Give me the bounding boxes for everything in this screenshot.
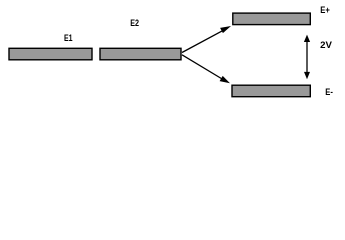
energy level bar E+ [233,13,310,25]
energy level bar E2 [100,48,181,60]
energy level bar E- [232,85,310,97]
double arrow 2V (down head) [304,72,310,79]
svg-text:E2: E2 [130,18,139,28]
svg-text:E-: E- [325,87,333,97]
double arrow 2V (up head) [304,35,310,42]
svg-text:E1: E1 [64,33,73,43]
svg-text:2V: 2V [320,40,332,50]
double arrow 2V (shaft) [306,40,308,74]
arrow from E2 to E+ (shaft) [182,30,224,53]
svg-text:E+: E+ [320,5,330,15]
energy level bar E1 [9,48,92,60]
arrow from E2 to E- (head) [220,76,230,83]
arrow from E2 to E- (shaft) [182,55,223,80]
arrow from E2 to E+ (head) [220,26,231,33]
